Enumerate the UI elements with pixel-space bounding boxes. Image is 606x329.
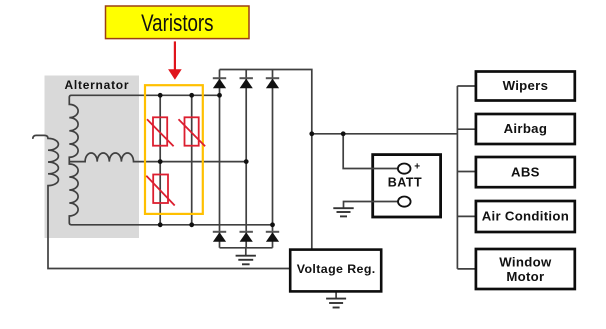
svg-text:Alternator: Alternator bbox=[64, 78, 129, 92]
svg-text:+: + bbox=[414, 161, 420, 172]
svg-text:Airbag: Airbag bbox=[504, 121, 548, 136]
svg-text:Wipers: Wipers bbox=[503, 78, 549, 93]
svg-text:ABS: ABS bbox=[511, 164, 540, 179]
svg-text:Varistors: Varistors bbox=[141, 10, 213, 37]
svg-text:Air Condition: Air Condition bbox=[482, 209, 569, 224]
svg-text:BATT: BATT bbox=[388, 175, 422, 189]
svg-text:Voltage Reg.: Voltage Reg. bbox=[297, 262, 376, 276]
svg-text:Motor: Motor bbox=[506, 269, 544, 284]
svg-text:Window: Window bbox=[499, 254, 552, 269]
